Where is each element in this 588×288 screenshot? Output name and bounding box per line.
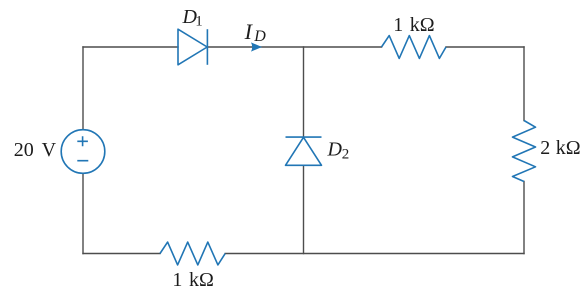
svg-text:D: D: [327, 139, 343, 161]
svg-text:kΩ: kΩ: [189, 269, 214, 288]
svg-text:1: 1: [172, 269, 182, 288]
svg-text:2: 2: [540, 137, 550, 159]
svg-text:V: V: [42, 139, 57, 161]
svg-text:1: 1: [393, 14, 403, 36]
svg-text:kΩ: kΩ: [556, 137, 581, 159]
svg-text:I: I: [244, 19, 254, 44]
svg-text:kΩ: kΩ: [410, 14, 435, 36]
svg-text:2: 2: [342, 146, 350, 162]
svg-text:D: D: [253, 28, 266, 45]
svg-text:20: 20: [14, 139, 34, 161]
svg-text:1: 1: [195, 14, 203, 30]
